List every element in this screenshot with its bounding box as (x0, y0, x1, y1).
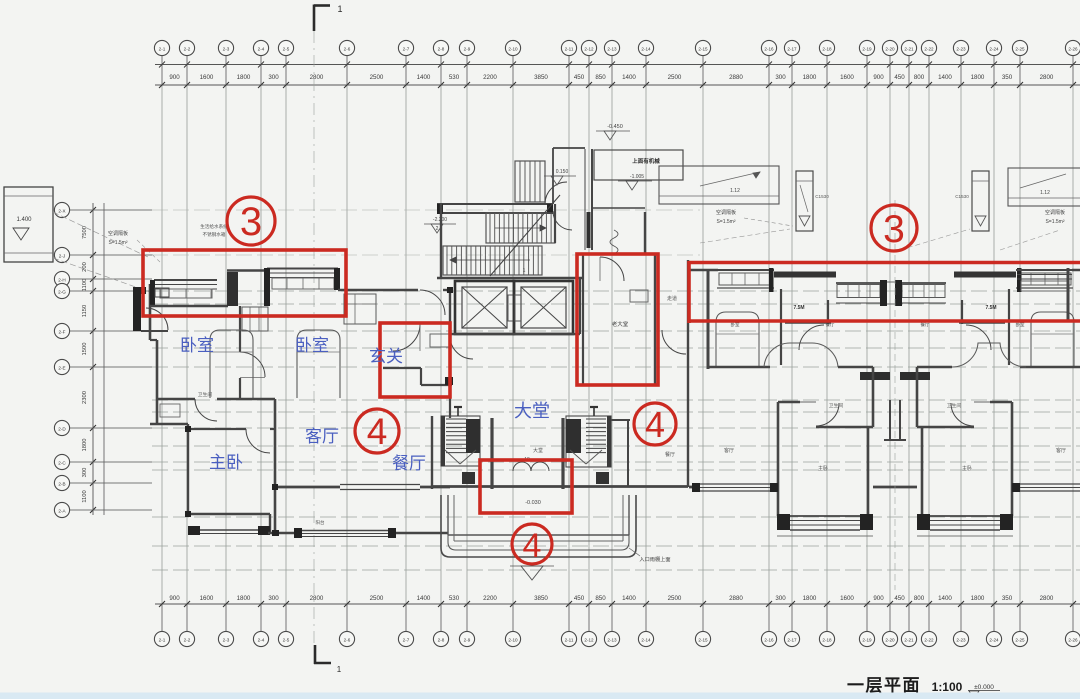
closet bedroom1 (242, 307, 268, 331)
svg-text:阳台: 阳台 (316, 519, 325, 526)
elevator shaft right (514, 281, 573, 334)
left detail box 1.400 (4, 187, 53, 262)
bedroom2 north wall (227, 269, 268, 271)
svg-text:1400: 1400 (938, 74, 952, 81)
svg-text:850: 850 (595, 74, 606, 81)
svg-text:2-6: 2-6 (344, 46, 351, 51)
svg-text:1.12: 1.12 (1040, 190, 1050, 196)
svg-text:7.5M: 7.5M (985, 305, 996, 311)
right unit B mirrored (900, 268, 1080, 536)
svg-text:1800: 1800 (237, 595, 251, 602)
svg-text:300: 300 (268, 74, 279, 81)
AC labels left unit top (108, 223, 228, 262)
unit bedroom south wall (1020, 366, 1080, 369)
svg-text:1600: 1600 (840, 74, 854, 81)
unit dark lintel band (774, 272, 836, 278)
svg-text:2-F: 2-F (59, 329, 66, 334)
left bay window (150, 280, 217, 307)
svg-text:2-15: 2-15 (698, 46, 708, 51)
svg-text:2-7: 2-7 (403, 46, 410, 51)
unit northwest wall (689, 269, 718, 271)
level marker left of core (424, 217, 456, 233)
svg-text:生活给水系统: 生活给水系统 (200, 223, 228, 230)
svg-text:S=1.5m²: S=1.5m² (1045, 219, 1064, 225)
svg-text:2-18: 2-18 (822, 46, 832, 51)
right unit A (689, 268, 890, 536)
master bay east wall (921, 427, 924, 516)
bath north wall (778, 401, 800, 403)
svg-text:1150: 1150 (82, 305, 88, 317)
svg-text:1: 1 (337, 4, 342, 14)
svg-text:2-24: 2-24 (989, 637, 999, 642)
door at hall top (420, 290, 445, 315)
svg-text:主卧: 主卧 (818, 465, 828, 472)
svg-text:850: 850 (595, 595, 606, 602)
svg-text:空调隔板: 空调隔板 (1045, 209, 1065, 216)
section mark 1 top (314, 4, 343, 31)
corridor north wall (785, 322, 831, 324)
left unit outer black pier (133, 287, 141, 331)
svg-text:2500: 2500 (370, 595, 384, 602)
svg-text:2-20: 2-20 (885, 46, 895, 51)
svg-text:1400: 1400 (417, 74, 431, 81)
svg-text:2880: 2880 (729, 595, 743, 602)
bath fixtures (160, 404, 180, 417)
unit northwest wall (1072, 269, 1080, 271)
east cut wall (1067, 268, 1070, 322)
bedroom1 bed (210, 330, 253, 398)
svg-text:1600: 1600 (200, 74, 214, 81)
svg-text:主卧: 主卧 (209, 453, 243, 472)
bottom grid bubbles (154, 604, 1080, 647)
svg-text:2: 2 (436, 226, 439, 232)
unit room east wall (780, 289, 782, 365)
machine room rect (594, 150, 683, 180)
top grid bubbles (154, 40, 1080, 85)
svg-text:入口雨棚上面: 入口雨棚上面 (639, 555, 670, 563)
svg-text:300: 300 (775, 595, 786, 602)
unit west window bay (717, 270, 774, 288)
svg-text:1.12: 1.12 (730, 188, 740, 194)
bath door (816, 403, 839, 426)
ground level triangle below porch (510, 566, 554, 580)
shaft double wall right of stairs (553, 148, 592, 250)
svg-text:450: 450 (574, 74, 585, 81)
dashed leader to plan (53, 212, 150, 258)
svg-text:2-21: 2-21 (904, 637, 914, 642)
svg-text:玄关: 玄关 (369, 347, 403, 366)
svg-text:900: 900 (169, 74, 180, 81)
svg-text:450: 450 (894, 74, 905, 81)
closet bedroom2 (344, 294, 376, 324)
svg-text:2800: 2800 (310, 74, 324, 81)
entry threshold wall band (432, 485, 917, 488)
svg-text:800: 800 (914, 595, 925, 602)
master bay west wall (1011, 480, 1014, 516)
svg-text:2-10: 2-10 (508, 637, 518, 642)
elevator hall wall (437, 277, 583, 279)
svg-text:2-21: 2-21 (904, 46, 914, 51)
corridor west stub wall (961, 300, 963, 324)
svg-text:-0.030: -0.030 (525, 500, 541, 506)
bath wall (157, 398, 195, 401)
door arc landing right (553, 211, 572, 230)
svg-text:2800: 2800 (310, 595, 324, 602)
living mid wall with opening (275, 485, 450, 490)
svg-text:客厅: 客厅 (724, 447, 734, 454)
svg-text:客厅: 客厅 (305, 427, 339, 446)
svg-text:2-B: 2-B (58, 481, 65, 486)
red circle 4 left (355, 409, 399, 453)
svg-text:±0.000: ±0.000 (974, 684, 994, 691)
foyer door (393, 324, 420, 351)
living/master divider wall (274, 399, 277, 534)
porch slab edge (448, 495, 629, 541)
left unit west wall (149, 284, 152, 340)
svg-text:卫生间: 卫生间 (947, 402, 962, 409)
svg-text:3850: 3850 (534, 74, 548, 81)
corridor door arc (966, 325, 991, 350)
bath fixture bar (860, 372, 890, 380)
svg-text:2-G: 2-G (58, 289, 66, 294)
elevator shaft left (455, 281, 514, 334)
svg-text:C1530: C1530 (815, 194, 829, 199)
unit dark lintel band (954, 272, 1016, 278)
svg-text:0.150: 0.150 (556, 169, 569, 175)
svg-text:2-25: 2-25 (1015, 637, 1025, 642)
entry rail post west (454, 407, 462, 416)
svg-text:300: 300 (268, 595, 279, 602)
svg-text:2-22: 2-22 (924, 637, 934, 642)
corridor north wall (959, 322, 1005, 324)
svg-text:1: 1 (337, 665, 342, 674)
entry steps west (441, 416, 480, 466)
svg-text:客厅: 客厅 (1056, 447, 1066, 454)
svg-text:2-8: 2-8 (438, 46, 445, 51)
svg-text:1600: 1600 (840, 595, 854, 602)
svg-text:450: 450 (574, 595, 585, 602)
unit west window bay (1016, 270, 1073, 288)
svg-text:2-1: 2-1 (159, 637, 166, 642)
svg-text:2-23: 2-23 (956, 637, 966, 642)
central jamb piers (880, 280, 902, 306)
svg-text:3850: 3850 (534, 595, 548, 602)
svg-text:2-15: 2-15 (698, 637, 708, 642)
svg-text:2-16: 2-16 (764, 637, 774, 642)
bath fixture bar (900, 372, 930, 380)
svg-text:1400: 1400 (622, 595, 636, 602)
svg-text:530: 530 (449, 74, 460, 81)
svg-text:2-16: 2-16 (764, 46, 774, 51)
master wall x188 (150, 423, 188, 425)
svg-text:2500: 2500 (668, 74, 682, 81)
svg-text:2-17: 2-17 (787, 46, 797, 51)
AC label left (716, 209, 793, 226)
svg-text:2-19: 2-19 (862, 637, 872, 642)
svg-text:2-20: 2-20 (885, 637, 895, 642)
section cut line 1-1 (313, 31, 315, 645)
corridor west stub wall (827, 300, 829, 324)
hall west wall (449, 290, 451, 333)
master bay window (917, 514, 1013, 536)
svg-text:300: 300 (775, 74, 786, 81)
red rect foyer (380, 323, 450, 397)
left dimension numbers (82, 226, 88, 503)
AC shaft left (796, 171, 829, 231)
svg-text:350: 350 (1002, 595, 1013, 602)
drawing title (843, 676, 1000, 698)
corridor door arc (799, 325, 824, 350)
red rect 3 left unit (143, 250, 346, 316)
svg-text:卫生间: 卫生间 (829, 402, 844, 409)
svg-text:2-24: 2-24 (989, 46, 999, 51)
master bay east wall (867, 427, 870, 516)
east cut bay window (1017, 270, 1072, 291)
hall south wall piece (917, 366, 952, 369)
bath south wall (816, 426, 873, 429)
unit east wall (872, 367, 875, 427)
svg-text:4: 4 (523, 527, 542, 565)
bath door arc (195, 399, 217, 421)
front room south wall (583, 384, 655, 386)
svg-text:300: 300 (82, 468, 88, 478)
red rect front room (577, 254, 658, 385)
svg-text:2-17: 2-17 (787, 637, 797, 642)
svg-text:1400: 1400 (417, 595, 431, 602)
svg-text:2500: 2500 (370, 74, 384, 81)
svg-text:2-A: 2-A (58, 508, 66, 513)
svg-text:空调隔板: 空调隔板 (108, 230, 128, 237)
roof band left (659, 166, 779, 204)
svg-text:4: 4 (645, 404, 665, 445)
svg-text:2300: 2300 (82, 391, 88, 404)
svg-text:2-26: 2-26 (1068, 46, 1078, 51)
svg-text:2-E: 2-E (58, 365, 65, 370)
svg-text:卫生间: 卫生间 (198, 391, 213, 398)
svg-text:2-10: 2-10 (508, 46, 518, 51)
party wall notch between units (884, 400, 906, 440)
bedroom2 bed (297, 330, 340, 398)
svg-text:1800: 1800 (971, 74, 985, 81)
svg-text:1100: 1100 (82, 490, 88, 502)
left bay sill wall (150, 305, 228, 307)
svg-text:卧室: 卧室 (180, 336, 214, 355)
svg-text:S=1.5m²: S=1.5m² (108, 240, 127, 246)
svg-text:2-13: 2-13 (607, 46, 617, 51)
svg-text:3: 3 (883, 208, 905, 251)
svg-text:2-2: 2-2 (184, 637, 191, 642)
svg-text:1800: 1800 (237, 74, 251, 81)
svg-text:1600: 1600 (200, 595, 214, 602)
red rect porch (480, 460, 572, 513)
svg-text:2-11: 2-11 (565, 637, 574, 642)
dashed roof leaders right (700, 229, 1060, 250)
bath west wall (777, 402, 780, 480)
stair run upper (486, 213, 555, 243)
svg-text:7.5M: 7.5M (793, 305, 804, 311)
svg-text:空调隔板: 空调隔板 (716, 209, 736, 216)
svg-text:2-6: 2-6 (344, 637, 351, 642)
unit room east wall (1008, 289, 1010, 365)
svg-text:2-1: 2-1 (159, 46, 166, 51)
svg-text:2-7: 2-7 (403, 637, 410, 642)
svg-text:900: 900 (873, 74, 884, 81)
central window bay left (836, 283, 880, 303)
svg-text:1800: 1800 (971, 595, 985, 602)
svg-text:2-X: 2-X (58, 208, 65, 213)
level marker right of core (618, 174, 652, 190)
entry steps east (566, 416, 611, 467)
party wall centerline (894, 200, 896, 590)
svg-text:2-12: 2-12 (584, 637, 594, 642)
svg-text:-0.450: -0.450 (607, 124, 623, 130)
svg-text:2-3: 2-3 (223, 46, 230, 51)
bottom dimension numbers (169, 595, 1054, 602)
central window bay right (902, 283, 946, 303)
bottom dimension line (155, 603, 1080, 605)
top dimension numbers (169, 74, 1054, 81)
foyer inner wall (383, 368, 453, 385)
svg-text:2-13: 2-13 (607, 637, 617, 642)
svg-text:2-D: 2-D (58, 426, 66, 431)
svg-text:900: 900 (169, 595, 180, 602)
master bay west wall (777, 480, 780, 516)
lobby wall below elevators (450, 333, 580, 335)
front room fixtures (630, 290, 648, 302)
stair west wall (440, 204, 442, 278)
lobby east wall (579, 278, 581, 334)
corner piers left unit (185, 287, 453, 536)
stair break line (490, 195, 560, 276)
svg-text:大堂: 大堂 (514, 401, 550, 421)
hall door to lobby (450, 336, 473, 359)
svg-text:2-4: 2-4 (258, 46, 265, 51)
unit bedroom bed (1031, 312, 1074, 367)
corridor east wall (687, 260, 689, 487)
entry door panels (462, 472, 609, 484)
svg-text:2-19: 2-19 (862, 46, 872, 51)
svg-text:2-8: 2-8 (438, 637, 445, 642)
master door (246, 429, 270, 453)
entry double door arcs (513, 456, 549, 471)
level marker -0.450 top (596, 124, 630, 140)
entry jamb walls (492, 418, 563, 489)
svg-text:卧室: 卧室 (295, 336, 329, 355)
svg-text:S=1.5m²: S=1.5m² (716, 219, 735, 225)
svg-text:2500: 2500 (668, 595, 682, 602)
svg-text:老大堂: 老大堂 (612, 320, 629, 328)
upper stair flight (515, 161, 545, 202)
left dimension line (92, 203, 94, 515)
bath west wall (1011, 402, 1014, 480)
svg-text:1800: 1800 (803, 74, 817, 81)
svg-text:1400: 1400 (938, 595, 952, 602)
bedroom divider wall (239, 306, 241, 352)
svg-text:走道: 走道 (667, 295, 677, 302)
svg-text:2-9: 2-9 (464, 46, 471, 51)
unit bedroom bed (716, 312, 759, 367)
bottom blue band (0, 693, 1080, 699)
svg-text:2880: 2880 (729, 74, 743, 81)
dark wall column between bays (227, 272, 238, 306)
svg-text:2200: 2200 (483, 74, 497, 81)
svg-text:1100: 1100 (82, 279, 88, 291)
master south bay (188, 514, 270, 535)
left grid bubbles (54, 202, 152, 517)
svg-text:主卧: 主卧 (962, 465, 972, 472)
center room below front room (611, 420, 630, 487)
vertical grid lines (162, 85, 1073, 604)
entry door arc west (146, 308, 168, 330)
svg-text:2-11: 2-11 (565, 46, 574, 51)
stair run lower (443, 246, 542, 275)
level marker mid (544, 169, 576, 185)
svg-text:2200: 2200 (483, 595, 497, 602)
svg-text:上面有机械: 上面有机械 (632, 157, 660, 165)
front room east wall (654, 254, 656, 385)
room size labels (731, 305, 1025, 328)
red circle 3 left (227, 197, 275, 245)
bath door (951, 403, 974, 426)
svg-text:3: 3 (240, 200, 262, 244)
bath south wall (917, 426, 974, 429)
red rect right wing (689, 261, 1080, 323)
svg-text:不锈钢水箱: 不锈钢水箱 (203, 231, 226, 238)
svg-text:-1.005: -1.005 (630, 174, 644, 180)
svg-text:1: 1 (523, 268, 526, 274)
louver symbol (610, 230, 618, 254)
living south wall with window (268, 528, 448, 538)
svg-text:一层平面: 一层平面 (847, 676, 921, 695)
svg-text:2-12: 2-12 (584, 46, 594, 51)
small wc near foyer (430, 334, 450, 347)
svg-text:餐厅: 餐厅 (392, 454, 426, 473)
svg-text:餐厅: 餐厅 (665, 451, 675, 458)
arched opening (764, 343, 838, 367)
canopy leader note (629, 548, 671, 563)
svg-text:2-26: 2-26 (1068, 637, 1078, 642)
red circle 4 bottom (512, 524, 552, 565)
svg-text:2-25: 2-25 (1015, 46, 1025, 51)
svg-text:2-23: 2-23 (956, 46, 966, 51)
canopy outline (441, 495, 636, 557)
svg-text:2-4: 2-4 (258, 637, 265, 642)
svg-text:1800: 1800 (803, 595, 817, 602)
bath north wall (990, 401, 1012, 403)
svg-text:450: 450 (894, 595, 905, 602)
svg-text:530: 530 (449, 595, 460, 602)
svg-text:2-H: 2-H (58, 277, 65, 282)
top dimension line (155, 64, 1080, 66)
door arc top landing (545, 182, 567, 204)
front room west wall (582, 254, 584, 385)
svg-text:2-5: 2-5 (283, 46, 290, 51)
svg-text:900: 900 (873, 595, 884, 602)
section mark 1 bottom (314, 645, 342, 674)
roof band right (1008, 168, 1080, 206)
front room upper wall (592, 208, 645, 255)
svg-text:1.400: 1.400 (16, 217, 32, 223)
master bay window (777, 514, 873, 536)
unit south wall with window (689, 483, 778, 492)
svg-text:2-14: 2-14 (641, 637, 651, 642)
svg-text:2800: 2800 (1040, 595, 1054, 602)
master north wall (188, 428, 246, 430)
unit west wall dark (707, 270, 710, 369)
svg-text:2800: 2800 (1040, 74, 1054, 81)
svg-text:1:100: 1:100 (932, 680, 963, 694)
svg-text:2-14: 2-14 (641, 46, 651, 51)
